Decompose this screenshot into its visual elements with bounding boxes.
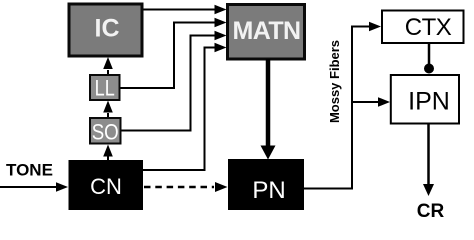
wire CTX to IPN <box>428 44 431 64</box>
box SO <box>90 118 121 145</box>
wire PN to CTX <box>304 22 381 189</box>
svg-text:SO: SO <box>92 121 119 145</box>
svg-text:IC: IC <box>95 15 120 43</box>
wire CN to PN dashed <box>144 182 228 192</box>
box CN <box>69 160 144 210</box>
svg-text:Mossy Fibers: Mossy Fibers <box>327 40 342 123</box>
inhibitory dot junction <box>424 64 434 74</box>
wire SO to LL <box>103 101 113 118</box>
wire CN to MATN <box>143 43 227 170</box>
wire SO to MATN <box>122 31 227 131</box>
wire TONE to CN <box>0 182 68 192</box>
svg-text:TONE: TONE <box>6 161 53 180</box>
box MATN <box>228 5 305 60</box>
box LL <box>90 75 120 101</box>
svg-text:PN: PN <box>252 177 285 204</box>
wire mossy fiber branch to IPN <box>352 97 390 107</box>
svg-text:CTX: CTX <box>405 14 452 41</box>
wire LL to IC <box>103 57 113 74</box>
box CTX <box>382 11 464 44</box>
svg-text:LL: LL <box>95 77 115 101</box>
box IC <box>69 4 142 56</box>
box PN <box>228 159 304 210</box>
svg-text:CR: CR <box>417 201 445 219</box>
svg-text:CN: CN <box>90 174 122 199</box>
wire MATN to PN thick <box>261 59 276 160</box>
svg-text:IPN: IPN <box>408 88 450 116</box>
wire CN to SO <box>103 145 113 161</box>
svg-text:MATN: MATN <box>233 17 301 45</box>
wire LL to MATN <box>121 18 227 88</box>
wire IC to MATN <box>144 5 227 15</box>
box IPN <box>391 75 459 124</box>
wire IPN to CR <box>423 125 434 197</box>
